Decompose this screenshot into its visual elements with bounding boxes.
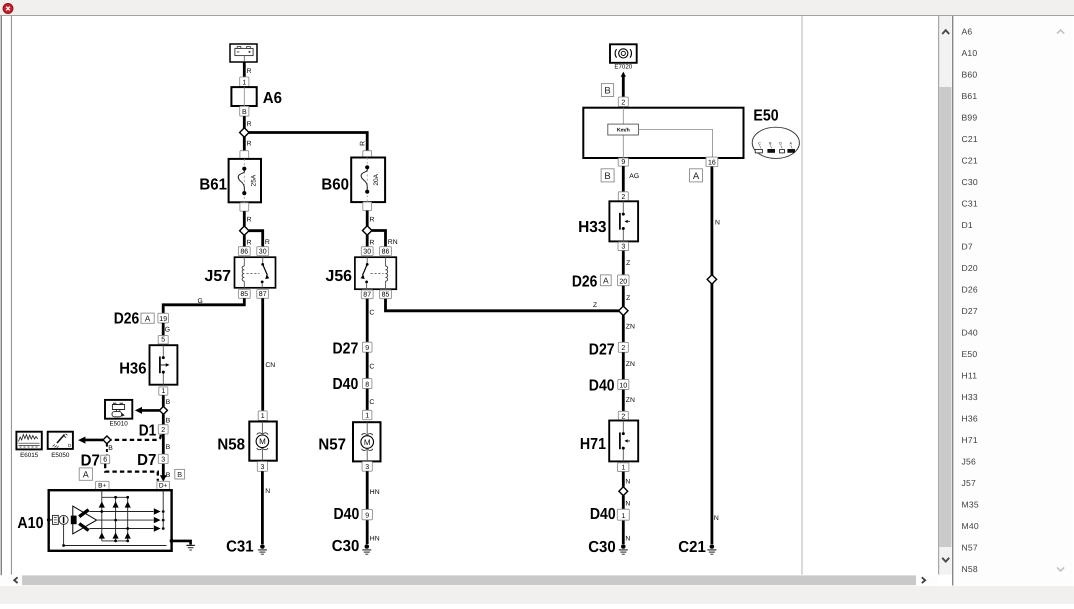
svg-text:87: 87 xyxy=(363,292,371,299)
svg-text:A: A xyxy=(603,275,609,285)
svg-text:D7: D7 xyxy=(81,453,100,470)
svg-text:C: C xyxy=(369,310,374,317)
svg-text:ZN: ZN xyxy=(626,361,635,368)
svg-text:Z: Z xyxy=(626,260,630,267)
svg-text:E7020: E7020 xyxy=(614,63,632,70)
svg-text:19: 19 xyxy=(159,316,167,323)
svg-text:E5010: E5010 xyxy=(109,420,128,427)
svg-text:1: 1 xyxy=(621,513,625,520)
svg-text:20A: 20A xyxy=(373,173,380,185)
svg-text:D27: D27 xyxy=(589,341,615,358)
svg-text:D27: D27 xyxy=(962,306,978,316)
svg-text:G: G xyxy=(165,327,170,334)
svg-text:2: 2 xyxy=(161,427,165,434)
svg-text:3: 3 xyxy=(260,464,264,471)
svg-text:Z: Z xyxy=(626,295,630,302)
svg-text:1: 1 xyxy=(161,388,165,395)
svg-text:H71: H71 xyxy=(580,436,606,453)
svg-text:N: N xyxy=(625,535,630,542)
svg-text:N58: N58 xyxy=(962,564,978,574)
svg-text:N58: N58 xyxy=(217,437,245,454)
svg-text:R: R xyxy=(247,68,252,75)
svg-text:CN: CN xyxy=(265,362,275,369)
svg-text:6: 6 xyxy=(103,457,107,464)
svg-text:D1: D1 xyxy=(962,220,973,230)
svg-text:D40: D40 xyxy=(334,506,360,523)
svg-text:8: 8 xyxy=(365,382,369,389)
svg-text:R: R xyxy=(360,141,367,146)
svg-text:J57: J57 xyxy=(962,478,976,488)
svg-text:D27: D27 xyxy=(333,341,359,358)
svg-text:R: R xyxy=(247,217,252,224)
svg-text:N: N xyxy=(715,219,720,226)
svg-text:3: 3 xyxy=(365,464,369,471)
svg-text:B: B xyxy=(242,109,247,116)
svg-text:D40: D40 xyxy=(589,377,615,394)
svg-text:B: B xyxy=(166,444,171,451)
svg-text:C30: C30 xyxy=(962,177,978,187)
svg-text:C30: C30 xyxy=(332,538,360,555)
svg-text:B60: B60 xyxy=(962,70,978,80)
svg-text:Km/h: Km/h xyxy=(617,128,630,134)
svg-text:D40: D40 xyxy=(333,376,359,393)
svg-text:D+: D+ xyxy=(159,482,168,489)
svg-text:D: D xyxy=(779,141,782,145)
svg-text:A: A xyxy=(693,171,700,182)
svg-text:E6015: E6015 xyxy=(20,452,39,459)
svg-text:G: G xyxy=(198,298,203,305)
svg-text:D1: D1 xyxy=(139,422,157,439)
svg-text:9: 9 xyxy=(365,513,369,520)
svg-text:H36: H36 xyxy=(119,361,146,378)
svg-text:N: N xyxy=(625,500,630,507)
svg-text:H11: H11 xyxy=(962,371,978,381)
svg-text:E50: E50 xyxy=(962,349,978,359)
svg-text:R: R xyxy=(370,217,375,224)
svg-text:86: 86 xyxy=(240,248,248,255)
svg-text:R: R xyxy=(247,239,252,246)
svg-text:M40: M40 xyxy=(962,521,979,531)
svg-text:D7: D7 xyxy=(137,452,156,469)
svg-text:C31: C31 xyxy=(226,539,254,556)
svg-text:B: B xyxy=(166,418,171,425)
svg-text:H33: H33 xyxy=(578,219,606,236)
svg-text:E50: E50 xyxy=(753,108,778,125)
svg-text:A6: A6 xyxy=(263,90,282,107)
svg-text:D26: D26 xyxy=(962,285,978,295)
svg-text:1: 1 xyxy=(261,413,265,420)
svg-text:9: 9 xyxy=(365,345,369,352)
svg-text:3: 3 xyxy=(161,456,165,463)
svg-text:2: 2 xyxy=(621,413,625,420)
svg-text:87: 87 xyxy=(259,291,267,298)
svg-text:9: 9 xyxy=(621,159,625,166)
svg-text:10: 10 xyxy=(619,383,627,390)
svg-text:B60: B60 xyxy=(321,177,349,194)
svg-text:B: B xyxy=(604,171,610,182)
svg-text:N: N xyxy=(714,515,719,522)
svg-text:2: 2 xyxy=(621,345,625,352)
svg-text:86: 86 xyxy=(382,248,390,255)
svg-text:R: R xyxy=(265,239,270,246)
svg-text:D7: D7 xyxy=(962,242,973,252)
svg-text:B99: B99 xyxy=(962,113,978,123)
svg-text:16: 16 xyxy=(708,159,716,166)
svg-text:N57: N57 xyxy=(962,543,978,553)
svg-text:ZN: ZN xyxy=(626,323,635,330)
svg-text:HN: HN xyxy=(370,535,380,542)
svg-text:C: C xyxy=(369,399,374,406)
svg-text:H33: H33 xyxy=(962,392,978,402)
svg-text:D26: D26 xyxy=(114,311,140,328)
svg-text:R: R xyxy=(370,239,375,246)
svg-text:B: B xyxy=(108,445,113,452)
svg-text:M: M xyxy=(259,437,266,446)
svg-text:R: R xyxy=(247,141,252,148)
svg-text:A: A xyxy=(145,313,151,323)
svg-text:5: 5 xyxy=(161,337,165,344)
svg-text:A10: A10 xyxy=(962,48,978,58)
svg-text:20: 20 xyxy=(619,279,627,286)
svg-text:A: A xyxy=(83,469,89,479)
svg-text:C21: C21 xyxy=(962,134,978,144)
svg-text:D40: D40 xyxy=(590,506,616,523)
svg-text:D20: D20 xyxy=(962,263,978,273)
svg-text:B+: B+ xyxy=(98,482,106,489)
svg-text:D26: D26 xyxy=(572,274,598,291)
svg-text:ZN: ZN xyxy=(626,397,635,404)
svg-text:2: 2 xyxy=(621,100,625,107)
svg-text:N: N xyxy=(265,488,270,495)
svg-text:H36: H36 xyxy=(962,414,978,424)
svg-text:B: B xyxy=(177,470,182,479)
svg-text:25A: 25A xyxy=(250,174,257,186)
svg-text:C21: C21 xyxy=(678,539,706,556)
svg-text:HN: HN xyxy=(370,489,380,496)
svg-text:R: R xyxy=(247,121,252,128)
svg-text:1: 1 xyxy=(621,465,625,472)
svg-text:C: C xyxy=(369,363,374,370)
svg-text:3: 3 xyxy=(621,244,625,251)
svg-text:N: N xyxy=(625,478,630,485)
svg-text:N57: N57 xyxy=(318,437,346,454)
svg-text:B: B xyxy=(604,86,610,97)
svg-text:M: M xyxy=(364,438,371,447)
svg-text:C30: C30 xyxy=(588,539,616,556)
svg-text:B: B xyxy=(166,399,171,406)
svg-text:B: B xyxy=(166,472,171,479)
svg-text:B61: B61 xyxy=(199,177,227,194)
svg-text:J56: J56 xyxy=(962,457,976,467)
svg-text:1: 1 xyxy=(242,80,246,87)
svg-text:85: 85 xyxy=(240,291,248,298)
svg-text:M35: M35 xyxy=(962,500,979,510)
svg-text:C: C xyxy=(758,141,761,145)
svg-text:85: 85 xyxy=(382,292,390,299)
svg-text:30: 30 xyxy=(363,248,371,255)
svg-text:H71: H71 xyxy=(962,435,978,445)
svg-text:30: 30 xyxy=(259,248,267,255)
svg-text:E5050: E5050 xyxy=(51,452,70,459)
svg-text:AG: AG xyxy=(629,173,639,180)
svg-text:A6: A6 xyxy=(962,27,973,37)
svg-text:D40: D40 xyxy=(962,328,978,338)
svg-text:J56: J56 xyxy=(326,268,353,285)
svg-text:RN: RN xyxy=(388,239,398,246)
svg-text:2: 2 xyxy=(621,194,625,201)
svg-text:C31: C31 xyxy=(962,199,978,209)
svg-text:1: 1 xyxy=(365,413,369,420)
svg-text:C21: C21 xyxy=(962,156,978,166)
svg-text:J57: J57 xyxy=(205,268,232,285)
svg-text:B61: B61 xyxy=(962,91,978,101)
svg-text:A10: A10 xyxy=(17,515,43,532)
svg-text:Z: Z xyxy=(593,302,597,309)
